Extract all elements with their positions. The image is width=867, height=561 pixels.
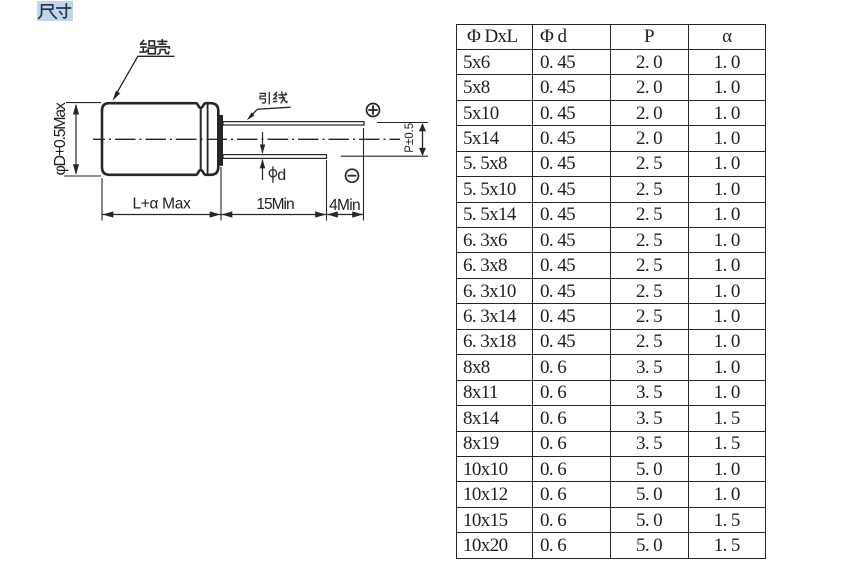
dimension 4Min : line + arrows (327, 214, 364, 216)
glyph 尺 (39, 5, 57, 19)
dimension phi-d : lower arrow line (262, 160, 264, 180)
svg-text:4Min: 4Min (329, 197, 360, 214)
glyph 寸 (57, 4, 71, 18)
glyph 线 (274, 92, 288, 103)
capacitor body (aluminum can) (102, 103, 218, 175)
label 引线 leader + arrow (250, 107, 291, 117)
polarity plus symbol (367, 104, 380, 117)
dimension L+a Max : extension lines (101, 178, 103, 221)
svg-text:φD+0.5Max: φD+0.5Max (52, 102, 69, 175)
glyph 铝 (140, 40, 155, 54)
glyph 引 (260, 92, 269, 104)
dimension P±0.5 : line + arrows (422, 124, 424, 155)
svg-text:d: d (277, 167, 286, 184)
label phi-d (269, 170, 276, 177)
title highlight 尺寸 (37, 1, 73, 21)
label 铝壳 leader + arrow (115, 56, 175, 97)
dimension phiD+0.5Max : dimension line + arrows (75, 105, 77, 174)
top lead (positive) (223, 122, 364, 125)
dimension 4Min : extension lines (326, 160, 328, 221)
center line (93, 138, 400, 140)
dimension P±0.5 : extension lines (377, 122, 428, 124)
polarity minus symbol (346, 169, 359, 182)
dimension phi-d : upper arrow line (262, 132, 264, 153)
crimp line (200, 108, 202, 170)
dimensions table (456, 24, 767, 559)
svg-text:15Min: 15Min (256, 196, 294, 213)
svg-text:P±0.5: P±0.5 (404, 123, 416, 153)
rubber seal end (black bar) (219, 115, 223, 166)
dimension L+a Max : line + arrows (102, 214, 221, 216)
bottom lead (negative) (223, 155, 327, 159)
glyph 壳 (156, 40, 170, 55)
seal line (207, 104, 209, 174)
svg-text:L+α Max: L+α Max (132, 196, 191, 213)
dimension phiD+0.5Max : extension lines (66, 102, 101, 104)
dimension 15Min : line + arrows (221, 214, 327, 216)
